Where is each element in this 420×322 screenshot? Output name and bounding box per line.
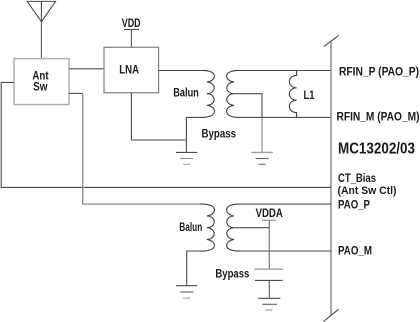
wire T2 primary bottom to ground: [187, 251, 201, 286]
net label VDDA: [256, 208, 283, 221]
svg-text:MC13202/03: MC13202/03: [338, 140, 415, 157]
svg-text:Ant: Ant: [32, 70, 48, 82]
svg-text:VDD: VDD: [122, 18, 141, 30]
ground G1 (RX balun primary): [176, 152, 197, 164]
wire LNA output to balun T1 primary: [159, 70, 201, 72]
svg-text:Bypass: Bypass: [202, 129, 237, 141]
svg-text:RFIN_P (PAO_P): RFIN_P (PAO_P): [339, 64, 419, 78]
wire VDDA to center tap and bypass cap: [268, 220, 270, 269]
svg-text:VDDA: VDDA: [256, 208, 283, 220]
pin label CT_Bias (Ant Sw Ctl): [338, 171, 397, 197]
wire LNA ground pin: [131, 93, 186, 140]
wire antenna to Ant Sw: [40, 22, 42, 59]
wire Ant Sw TX vertical to balun T2: [83, 93, 201, 204]
svg-text:RFIN_M (PAO_M): RFIN_M (PAO_M): [337, 109, 420, 123]
wire PAO_M: [241, 250, 332, 252]
inductor L1: [289, 71, 296, 118]
svg-text:(Ant Sw Ctl): (Ant Sw Ctl): [338, 185, 397, 197]
svg-text:L1: L1: [304, 88, 315, 102]
balun T1 secondary winding: [227, 70, 241, 117]
amplifier LNA: [104, 47, 159, 92]
wire Ant Sw TX out (stub): [69, 92, 83, 94]
wire T1 primary bottom to ground: [186, 117, 200, 152]
net label VDD: [122, 18, 141, 30]
balun T2 secondary winding: [227, 204, 241, 251]
svg-text:Bypass: Bypass: [215, 269, 249, 281]
ground G4 (TX bypass capacitor): [258, 298, 280, 310]
wire CT_Bias from Ant Sw: [1, 82, 331, 187]
wire RFIN_M: [241, 116, 332, 118]
wire T2 center tap: [234, 227, 269, 229]
wire Ant Sw to LNA: [70, 68, 105, 70]
IC boundary edge MC13202/03: [324, 35, 339, 321]
antenna ANT: [27, 1, 55, 21]
balun T1 primary winding: [201, 70, 215, 117]
svg-text:LNA: LNA: [119, 65, 139, 77]
wire RFIN_P: [241, 70, 332, 72]
wire VDD to LNA: [130, 29, 132, 47]
ground G2 (T1 center tap): [251, 152, 273, 164]
wire T1 center tap: [234, 94, 262, 118]
ground G3 (TX balun primary): [176, 286, 197, 298]
svg-text:PAO_P: PAO_P: [338, 197, 370, 211]
svg-text:CT_Bias: CT_Bias: [338, 171, 376, 185]
capacitor bypass (TX): [254, 269, 283, 298]
svg-text:Balun: Balun: [179, 222, 202, 234]
svg-text:PAO_M: PAO_M: [338, 243, 372, 257]
wire PAO_P: [241, 203, 332, 205]
balun T2 primary winding: [201, 204, 215, 251]
wire T1 center tap stem (light): [261, 118, 263, 152]
svg-text:Sw: Sw: [33, 82, 47, 94]
svg-text:Balun: Balun: [173, 88, 199, 100]
antenna switch Ant Sw: [14, 59, 69, 105]
